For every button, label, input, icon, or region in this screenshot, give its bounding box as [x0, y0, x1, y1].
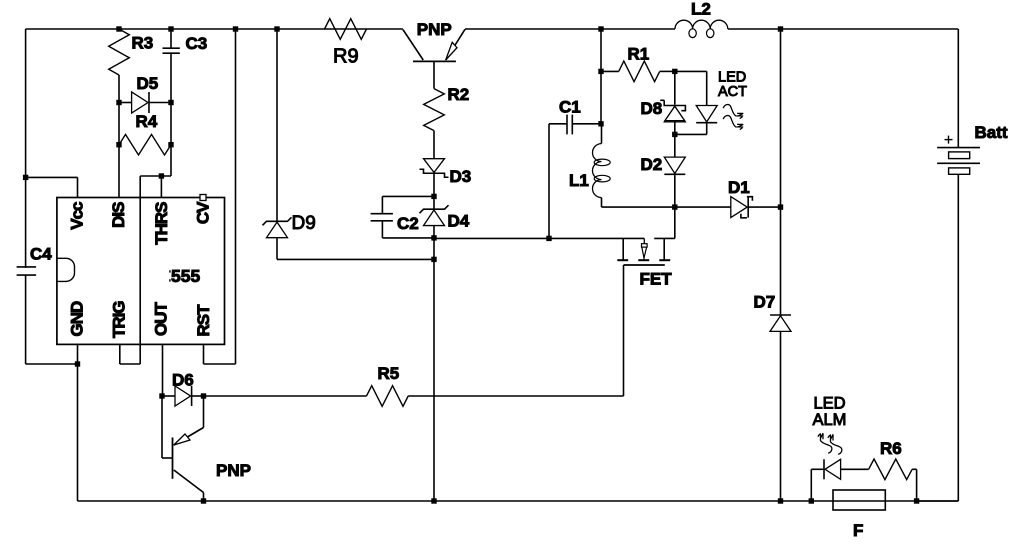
svg-text:PNP: PNP	[216, 461, 251, 480]
svg-text:Vcc: Vcc	[68, 202, 87, 230]
svg-text:555: 555	[171, 266, 200, 286]
svg-text:DIS: DIS	[109, 202, 128, 228]
svg-text:R4: R4	[136, 112, 158, 131]
svg-text:R9: R9	[333, 46, 359, 68]
svg-text:GND: GND	[68, 301, 87, 337]
svg-text:D8: D8	[641, 99, 663, 118]
svg-text:D2: D2	[641, 155, 663, 174]
svg-text:FET: FET	[640, 269, 673, 288]
svg-text:D9: D9	[292, 213, 316, 234]
svg-text:L2: L2	[691, 0, 711, 19]
svg-text:ACT: ACT	[718, 84, 747, 100]
svg-text:OUT: OUT	[152, 302, 171, 337]
svg-text:CV: CV	[194, 201, 213, 224]
svg-text:ALM: ALM	[813, 411, 847, 429]
svg-text:R5: R5	[378, 364, 400, 383]
svg-text:C2: C2	[397, 214, 419, 233]
svg-text:C1: C1	[559, 98, 581, 117]
svg-text:F: F	[853, 521, 863, 540]
svg-text:D6: D6	[172, 371, 194, 390]
svg-text:L1: L1	[569, 171, 589, 190]
svg-text:D7: D7	[754, 293, 776, 312]
svg-text:LED: LED	[814, 394, 846, 412]
svg-text:RST: RST	[194, 304, 213, 337]
svg-text:D5: D5	[137, 74, 159, 93]
svg-text:C4: C4	[30, 245, 52, 264]
svg-text:R1: R1	[628, 45, 650, 64]
svg-text:TRIG: TRIG	[110, 301, 129, 338]
svg-text:R3: R3	[132, 34, 154, 53]
svg-text:D4: D4	[448, 212, 470, 231]
svg-text:THRS: THRS	[152, 202, 171, 245]
svg-text:D1: D1	[728, 178, 750, 197]
svg-text:Batt: Batt	[975, 123, 1008, 142]
svg-text:PNP: PNP	[417, 20, 452, 39]
svg-text:D3: D3	[450, 167, 472, 186]
svg-text:C3: C3	[186, 34, 208, 53]
svg-text:R2: R2	[448, 85, 470, 104]
svg-text:R6: R6	[880, 439, 902, 458]
